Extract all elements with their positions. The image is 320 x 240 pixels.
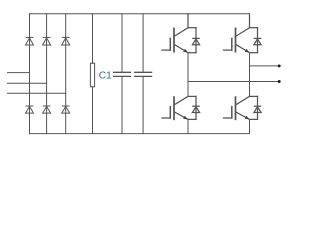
wire resistor leg bottom <box>92 87 94 134</box>
wire AC input phase B <box>8 82 47 84</box>
Q1 gate lead <box>162 49 170 51</box>
Q3 gate bar <box>169 107 171 118</box>
wire rectifier leg 3 <box>65 14 67 134</box>
node output terminal 1 <box>278 64 281 67</box>
Q4 body bar <box>235 97 237 119</box>
wire bottom-right emitter to rail <box>249 119 251 133</box>
diode D1 top leg1 <box>26 37 34 45</box>
Q3 gate lead <box>162 117 170 119</box>
Q2 collector diagonal <box>236 28 250 37</box>
wire AC input phase A <box>8 72 30 74</box>
wire rectifier leg 1 <box>29 14 31 134</box>
capacitor C1a top lead <box>121 14 123 73</box>
Q2 gate lead <box>224 49 232 51</box>
capacitor C1b plates <box>135 72 152 76</box>
diode D6 bottom leg3 <box>62 106 70 113</box>
Q3 collector diagonal <box>174 96 188 105</box>
Q1 gate bar <box>169 38 171 50</box>
Q1 emitter arrow <box>183 49 188 53</box>
Q3 body bar <box>173 97 175 119</box>
Q4 gate bar <box>231 107 233 118</box>
Q3 emitter diagonal <box>174 112 188 120</box>
capacitor C1a bottom lead <box>121 76 123 133</box>
wire output phase 1 <box>250 65 280 67</box>
wire AC input phase C <box>8 92 66 94</box>
Q4 emitter arrow <box>245 116 250 120</box>
Q1 emitter diagonal <box>174 44 188 52</box>
Q2 antiparallel diode branch <box>250 27 258 29</box>
wire right leg midpoint <box>249 53 251 97</box>
Q4 collector diagonal <box>236 96 250 105</box>
wire rectifier leg 2 <box>46 14 48 134</box>
Q2 antiparallel diode D8 <box>254 37 260 39</box>
Q1 antiparallel diode branch <box>188 27 196 29</box>
Q2 body bar <box>235 28 237 51</box>
diode D4 bottom leg1 <box>26 106 34 113</box>
Q2 collector lead <box>249 14 251 28</box>
wire left leg midpoint <box>187 53 189 97</box>
diode D3 top leg3 <box>62 37 70 45</box>
IGBT Q1 top-left <box>162 14 200 53</box>
Q2 emitter arrow <box>245 49 250 53</box>
capacitor C1a plates <box>114 72 131 76</box>
node output terminal 2 <box>278 80 281 83</box>
capacitor C1b top lead <box>142 14 144 73</box>
wire bottom DC rail <box>30 133 250 135</box>
Q4 emitter diagonal <box>236 112 250 120</box>
Q4 gate lead <box>224 117 232 119</box>
IGBT Q4 bottom-right <box>224 96 262 119</box>
wire output phase 2 <box>188 81 279 83</box>
Q4 antiparallel diode D10 <box>254 105 260 107</box>
resistor R1 body <box>90 63 94 87</box>
svg-text:C1: C1 <box>99 70 112 81</box>
Q1 antiparallel diode D7 <box>193 37 199 39</box>
capacitor C1b bottom lead <box>142 76 144 133</box>
Q1 collector lead <box>187 14 189 28</box>
wire bottom-left emitter to rail <box>187 119 189 133</box>
Q3 antiparallel diode branch <box>188 95 196 97</box>
Q4 antiparallel diode branch <box>250 95 258 97</box>
Q3 antiparallel diode D9 <box>193 105 199 107</box>
Q1 body bar <box>173 28 175 51</box>
IGBT Q3 bottom-left <box>162 96 200 119</box>
Q2 emitter diagonal <box>236 44 250 52</box>
Q1 collector diagonal <box>174 28 188 37</box>
Q3 emitter arrow <box>183 116 188 120</box>
diode D5 bottom leg2 <box>43 106 51 113</box>
diode D2 top leg2 <box>43 37 51 45</box>
Q2 gate bar <box>231 38 233 50</box>
wire top DC rail <box>30 13 250 15</box>
IGBT Q2 top-right <box>224 14 262 53</box>
wire resistor leg top <box>92 14 94 63</box>
